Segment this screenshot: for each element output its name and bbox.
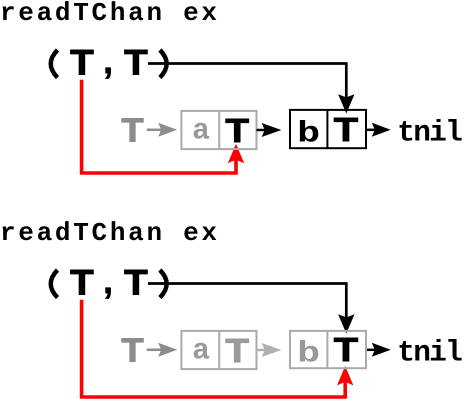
svg-text:tnil: tnil bbox=[397, 336, 463, 370]
svg-text:T: T bbox=[334, 112, 359, 149]
svg-text:T: T bbox=[225, 333, 249, 370]
svg-text:T: T bbox=[70, 43, 94, 83]
svg-text:T: T bbox=[225, 113, 249, 150]
svg-text:,: , bbox=[103, 261, 113, 301]
svg-text:T: T bbox=[334, 332, 359, 369]
svg-text:b: b bbox=[297, 117, 320, 151]
svg-text:a: a bbox=[192, 334, 210, 368]
svg-text:tnil: tnil bbox=[397, 116, 463, 150]
svg-text:T: T bbox=[124, 43, 148, 83]
svg-text:T: T bbox=[70, 263, 94, 303]
svg-text:b: b bbox=[297, 337, 320, 371]
svg-text:,: , bbox=[103, 41, 113, 81]
svg-text:T: T bbox=[121, 332, 144, 369]
svg-text:T: T bbox=[121, 112, 144, 149]
svg-text:a: a bbox=[192, 114, 210, 148]
svg-text:T: T bbox=[124, 263, 148, 303]
